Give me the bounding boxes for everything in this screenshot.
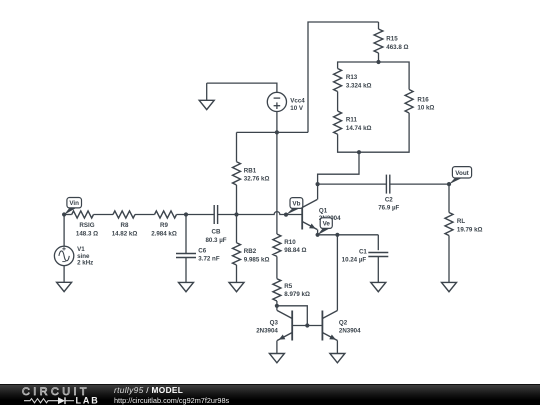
resistor R10 [273, 234, 307, 256]
capacitor C1 [342, 235, 389, 283]
svg-text:C1: C1 [359, 249, 367, 256]
svg-text:LAB: LAB [76, 396, 100, 405]
svg-text:19.79 kΩ: 19.79 kΩ [457, 227, 483, 234]
capacitor C6 [176, 215, 220, 283]
svg-text:9.985 kΩ: 9.985 kΩ [244, 256, 270, 263]
wire CB to base node [218, 214, 237, 216]
svg-text:Q3: Q3 [270, 319, 279, 326]
svg-text:2N3904: 2N3904 [339, 327, 361, 334]
voltage source Vcc4 [267, 92, 305, 112]
resistor R16 [405, 90, 434, 114]
wire top ground rail [207, 83, 277, 92]
wire C2 to Vout [390, 183, 449, 185]
transistor Q3 [256, 311, 292, 341]
capacitor C2 [378, 175, 399, 212]
svg-text:Q2: Q2 [339, 319, 348, 326]
wire R8 to R9 [135, 214, 155, 216]
svg-text:Vcc4: Vcc4 [290, 97, 305, 104]
svg-text:Ve: Ve [323, 220, 331, 227]
svg-text:2N3904: 2N3904 [256, 327, 278, 334]
svg-text:32.76 kΩ: 32.76 kΩ [244, 176, 270, 183]
svg-text:10 V: 10 V [290, 105, 304, 112]
svg-text:RL: RL [457, 218, 465, 225]
svg-text:14.74 kΩ: 14.74 kΩ [346, 125, 372, 132]
ground C6 [179, 282, 194, 291]
node Ve label [316, 218, 333, 237]
wire Vin to RSIG [64, 214, 72, 216]
svg-text:R10: R10 [284, 239, 296, 246]
node Vout label [449, 167, 472, 185]
junction C6 node [184, 212, 188, 216]
ground top (Vcc return) [206, 83, 208, 100]
junction Vcc node [275, 130, 279, 134]
junction R5 mirror node [275, 304, 279, 308]
wire R9 to C6 node [177, 214, 215, 216]
svg-text:3.72 nF: 3.72 nF [198, 256, 220, 263]
resistor RB1 [233, 132, 270, 214]
transistor Q1 [302, 184, 341, 235]
junction feedback node [357, 150, 361, 154]
svg-text:10.24 µF: 10.24 µF [342, 256, 367, 263]
svg-text:2 kHz: 2 kHz [77, 260, 93, 267]
svg-text:3.324 kΩ: 3.324 kΩ [346, 82, 372, 89]
svg-text:RB1: RB1 [244, 167, 257, 174]
wire R13-R11 [337, 92, 339, 112]
wire Vcc riser to R15 [308, 22, 379, 132]
wire parallel section bottom rail [338, 113, 410, 152]
logo diode [58, 397, 65, 404]
svg-text:RSIG: RSIG [79, 222, 94, 229]
resistor RL [445, 184, 483, 282]
svg-text:R13: R13 [346, 74, 358, 81]
wire R10 to R5 [276, 256, 278, 278]
svg-text:R15: R15 [386, 36, 398, 43]
resistor R15 [374, 22, 408, 62]
svg-text:CB: CB [212, 229, 221, 236]
svg-text:Vb: Vb [292, 200, 300, 207]
resistor RSIG [72, 211, 98, 238]
svg-text:463.8 Ω: 463.8 Ω [386, 44, 408, 51]
wire Q3 emitter to ground [276, 341, 278, 354]
svg-text:R11: R11 [346, 116, 358, 123]
resistor R8 [112, 211, 138, 238]
logo resistor squiggle [24, 399, 58, 403]
junction collector node [316, 182, 320, 186]
svg-text:C6: C6 [198, 248, 206, 255]
svg-text:148.3 Ω: 148.3 Ω [76, 231, 98, 238]
wire Vcc drop to R10 [276, 132, 278, 234]
wire Q3 collector tie [276, 306, 278, 311]
svg-text:8.979 kΩ: 8.979 kΩ [284, 291, 310, 298]
ground Q2 [330, 354, 345, 363]
wire base rail with hop over Vcc drop [237, 212, 303, 215]
svg-text:Vout: Vout [455, 170, 469, 177]
svg-text:10 kΩ: 10 kΩ [417, 105, 434, 112]
svg-text:R5: R5 [284, 283, 292, 290]
voltage source V1 [54, 215, 93, 267]
node Vin label [64, 198, 81, 215]
wire collector node to C2 [318, 183, 387, 185]
junction Vout node [447, 182, 451, 186]
svg-text:2.984 kΩ: 2.984 kΩ [151, 231, 177, 238]
svg-text:R9: R9 [160, 222, 168, 229]
resistor R11 [334, 111, 372, 134]
wire Vcc4 bottom lead [276, 112, 278, 133]
capacitor CB [205, 205, 226, 244]
resistor RB2 [233, 215, 270, 283]
junction base bias node [234, 212, 238, 216]
svg-text:14.82 kΩ: 14.82 kΩ [112, 231, 138, 238]
wire Q2 emitter to ground [336, 341, 338, 354]
wire RSIG to R8 [94, 214, 114, 216]
transistor Q2 [322, 311, 361, 341]
resistor R5 [273, 279, 310, 306]
resistor R9 [151, 211, 177, 238]
svg-text:R16: R16 [417, 96, 429, 103]
wire feedback drop to collector [318, 152, 359, 184]
ground C1 [371, 282, 386, 291]
svg-text:RB2: RB2 [244, 248, 257, 255]
resistor R13 [334, 69, 372, 92]
ground RB2 [229, 282, 244, 291]
ground RL [442, 282, 457, 291]
svg-text:76.9 µF: 76.9 µF [378, 205, 399, 212]
svg-text:98.84 Ω: 98.84 Ω [284, 247, 306, 254]
svg-text:Vin: Vin [69, 200, 79, 207]
svg-text:C2: C2 [385, 196, 393, 203]
svg-text:80.3 µF: 80.3 µF [205, 237, 226, 244]
svg-text:R8: R8 [121, 222, 129, 229]
wire base rail Q3-Q2 [292, 325, 322, 327]
wire Vcc node horizontal [237, 131, 309, 133]
ground Q3 [269, 354, 284, 363]
wire Q2 collector drop [336, 235, 338, 311]
svg-text:Q1: Q1 [319, 207, 328, 214]
junction mirror base node [305, 323, 309, 327]
wire parallel section top rail [338, 62, 410, 90]
junction Vin node [62, 212, 66, 216]
ground V1 [63, 266, 65, 283]
node Vb label [284, 198, 303, 217]
wire emitter node [318, 234, 379, 236]
wire mirror gate tie [277, 306, 307, 326]
junction emitter branch [335, 233, 339, 237]
junction R15 bottom node [376, 60, 380, 64]
